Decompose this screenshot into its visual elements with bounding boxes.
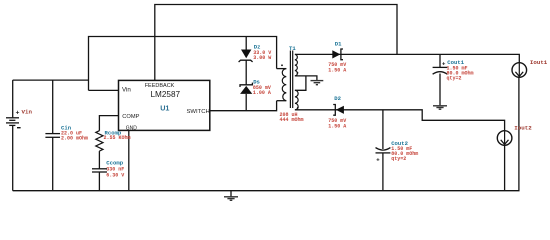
wire ccomp bottom [98, 172, 100, 191]
wire bottom rail [13, 77, 519, 191]
svg-text:2.00 mOhm: 2.00 mOhm [61, 135, 88, 141]
wire secondary top to D1 out1 rail [295, 54, 519, 62]
wire snubber middle [245, 60, 247, 85]
wire gnd pin [128, 130, 130, 190]
capacitor Cout1 [433, 59, 474, 82]
svg-text:444 mOhm: 444 mOhm [280, 117, 304, 123]
wire snubber bottom [245, 94, 247, 111]
wire cin bottom lead [52, 137, 54, 190]
ground cout1 [433, 106, 447, 109]
diode D1 [328, 40, 346, 73]
svg-text:1.50 A: 1.50 A [328, 124, 346, 130]
svg-text:2.55 KOhm: 2.55 KOhm [104, 135, 131, 141]
svg-text:1.00 A: 1.00 A [253, 90, 271, 96]
wire vin jog to IC [89, 89, 119, 91]
battery Vin [6, 108, 32, 127]
svg-text:+: + [16, 110, 20, 117]
svg-text:GND: GND [126, 126, 138, 132]
current source Iout1 [512, 59, 548, 77]
IC U1 LM2587 regulator [119, 80, 210, 131]
phase dot secondary top [297, 72, 299, 74]
secondary winding bottom [295, 90, 298, 110]
svg-text:D1: D1 [335, 40, 342, 47]
resistor Rcomp [96, 129, 131, 151]
wire top feedback rail [155, 5, 397, 81]
zener diode Dz [239, 44, 272, 63]
primary winding [282, 69, 286, 101]
wire switch pin [210, 101, 276, 111]
capacitor Ccomp [92, 159, 124, 178]
svg-text:LM2587: LM2587 [151, 90, 181, 99]
wire cout1 top lead [439, 54, 441, 67]
wire comp pin [99, 116, 118, 131]
capacitor Cin [45, 124, 88, 141]
secondary winding top [295, 54, 297, 76]
wire cout2 top lead [382, 110, 384, 149]
svg-text:U1: U1 [160, 104, 169, 113]
wire secondary bottom to D2 out2 [295, 110, 505, 131]
wire left rail [13, 79, 89, 81]
svg-text:Vin: Vin [22, 108, 33, 115]
svg-text:3.00 W: 3.00 W [253, 55, 271, 61]
wire primary bottom lead [277, 100, 287, 102]
svg-text:6.30 V: 6.30 V [106, 172, 124, 178]
wire rcomp to ccomp [98, 151, 100, 169]
wire center tap branch to lower coil [295, 76, 306, 90]
svg-text:1.50 A: 1.50 A [328, 68, 346, 74]
ground center tap [311, 81, 324, 85]
wire battery bottom lead [12, 126, 14, 191]
svg-text:qty=2: qty=2 [447, 76, 462, 82]
wire iout2 bottom lead [504, 145, 506, 191]
phase dot primary [281, 64, 283, 66]
svg-text:D2: D2 [334, 95, 341, 102]
schottky diode Ds [240, 79, 271, 97]
svg-text:Vin: Vin [122, 86, 131, 93]
wire center tap [295, 76, 317, 80]
diode D2 [328, 95, 346, 130]
wire battery top lead [12, 80, 14, 117]
svg-text:qty=2: qty=2 [391, 156, 406, 162]
svg-text:+: + [376, 158, 380, 164]
core lines [289, 51, 291, 109]
wire primary top lead [277, 68, 287, 70]
svg-text:Iout2: Iout2 [514, 125, 532, 132]
wire cin top lead [52, 80, 54, 134]
wire cout2 bottom lead [382, 153, 384, 191]
ground main rail [224, 191, 238, 201]
capacitor Cout2 [376, 140, 419, 163]
current source Iout2 [497, 125, 532, 146]
wire cout1 to ground [439, 74, 441, 106]
battery minus mark [17, 127, 21, 129]
svg-text:COMP: COMP [122, 114, 139, 120]
transformer T1 [280, 45, 304, 123]
svg-text:SWITCH: SWITCH [187, 109, 210, 115]
wire snubber top [245, 37, 247, 50]
wire vin rail [89, 37, 277, 91]
svg-text:FEEDBACK: FEEDBACK [145, 83, 175, 89]
svg-text:Iout1: Iout1 [530, 59, 548, 66]
phase dot secondary bottom [297, 107, 299, 109]
